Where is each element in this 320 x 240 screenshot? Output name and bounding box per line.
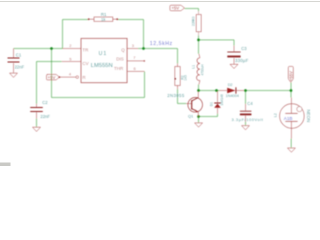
window top edge (0, 1, 320, 2)
svg-text:L2: L2 (273, 113, 277, 117)
svg-text:TR: TR (82, 48, 89, 53)
svg-text:THR: THR (114, 66, 124, 71)
pin 5 CV (62, 61, 81, 63)
resistor R1 (89, 17, 118, 21)
transistor Q1 (188, 98, 203, 113)
svg-text:NEON: NEON (306, 110, 311, 123)
svg-text:+5V: +5V (48, 75, 56, 80)
wire rail right segment (244, 90, 291, 92)
wire lamp bottom to ground (290, 139, 292, 148)
node D1 junction (215, 89, 218, 92)
svg-text:12,5kHz: 12,5kHz (150, 41, 173, 47)
resistor R2 (175, 64, 180, 90)
window corner box (0, 163, 11, 167)
svg-text:DIS: DIS (116, 56, 124, 61)
svg-text:3.3µF/100Volt: 3.3µF/100Volt (232, 117, 264, 122)
wire +5V flag to R3 (185, 9, 199, 12)
wire C2 bottom to ground (36, 119, 38, 127)
svg-text:Q: Q (121, 47, 125, 52)
pin 6 THR (127, 70, 144, 72)
svg-text:C1: C1 (16, 52, 22, 57)
capacitor C4 polarized (245, 104, 247, 122)
node C4 junction (244, 89, 247, 92)
ground below C1 (10, 73, 18, 77)
ground below C2 (33, 127, 41, 131)
node L1 collector junction (197, 89, 200, 92)
capacitor C1 (13, 49, 15, 73)
ground below Q1 emitter (195, 123, 203, 127)
wire +55V flag to rail (290, 83, 292, 91)
wire to C3 (199, 40, 235, 46)
svg-text:+55V: +55V (288, 71, 293, 81)
supply +55V flag right (288, 66, 293, 82)
supply +5V flag top (170, 5, 185, 11)
svg-text:D1: D1 (209, 102, 213, 106)
pin 3 Q (127, 48, 138, 50)
capacitor C3 polarized (233, 46, 235, 64)
svg-text:D2: D2 (228, 83, 233, 87)
svg-text:U1: U1 (99, 51, 108, 57)
supply +5V flag at reset (47, 74, 60, 80)
wire L1 bottom to rail (198, 85, 200, 91)
ground below C3 (230, 64, 238, 68)
node Q junction (142, 47, 145, 50)
resistor R3 (196, 11, 201, 35)
inductor L1 (199, 54, 200, 58)
wire THR loop (52, 49, 145, 98)
node lamp junction (290, 89, 293, 92)
svg-text:LM555N: LM555N (91, 63, 113, 69)
wire R2 bottom to Q1 base (178, 89, 187, 104)
wire Q output to R2 (138, 49, 178, 64)
pin 2 TR (63, 48, 82, 50)
svg-text:330µF: 330µF (235, 58, 249, 63)
neon lamp L2 (290, 98, 292, 114)
wire R3 bottom node (198, 35, 200, 40)
wire TR node up to R1 left (63, 20, 89, 49)
wire node to L1 top (198, 40, 200, 54)
svg-text:2N3055: 2N3055 (167, 93, 185, 98)
svg-text:CV: CV (82, 61, 88, 66)
wire D1 anode to emitter (199, 114, 218, 117)
svg-text:C2: C2 (42, 100, 48, 105)
svg-text:C3: C3 (241, 46, 247, 51)
capacitor C2 (36, 104, 38, 119)
wire CV to C2 (37, 62, 62, 104)
pin 4 R with bubble (60, 76, 76, 78)
ground below C4 (242, 126, 250, 130)
svg-text:A1B: A1B (284, 116, 293, 121)
node R3 bottom junction (197, 39, 200, 42)
wire rail to lamp (290, 91, 292, 98)
pin 7 DIS (127, 60, 144, 62)
svg-text:+5V: +5V (171, 6, 179, 11)
ground below lamp (287, 148, 295, 152)
svg-text:1k5: 1k5 (184, 75, 188, 81)
node emitter junction (197, 115, 200, 118)
svg-text:C4: C4 (247, 101, 253, 106)
wire C4 top (245, 91, 247, 104)
svg-text:22nF: 22nF (15, 65, 25, 70)
svg-text:L1: L1 (192, 65, 196, 69)
svg-text:1N4148: 1N4148 (220, 94, 224, 105)
wire R1 right to Q net (117, 20, 143, 49)
wire C4 bottom to ground (245, 122, 247, 126)
svg-text:22nF: 22nF (40, 114, 50, 119)
svg-text:Q1: Q1 (188, 113, 194, 118)
diode D1 (217, 91, 219, 103)
svg-text:1N4004: 1N4004 (226, 94, 239, 98)
diode D2 (220, 90, 227, 92)
svg-text:22R: 22R (192, 19, 196, 26)
wire rail left segment (199, 90, 220, 92)
wire C1 to TR node (14, 48, 63, 50)
IC U1 LM555N 555 timer (81, 38, 127, 82)
wire emitter to ground (198, 117, 200, 123)
node TR junction (50, 47, 53, 50)
svg-text:4700uH: 4700uH (201, 64, 205, 76)
